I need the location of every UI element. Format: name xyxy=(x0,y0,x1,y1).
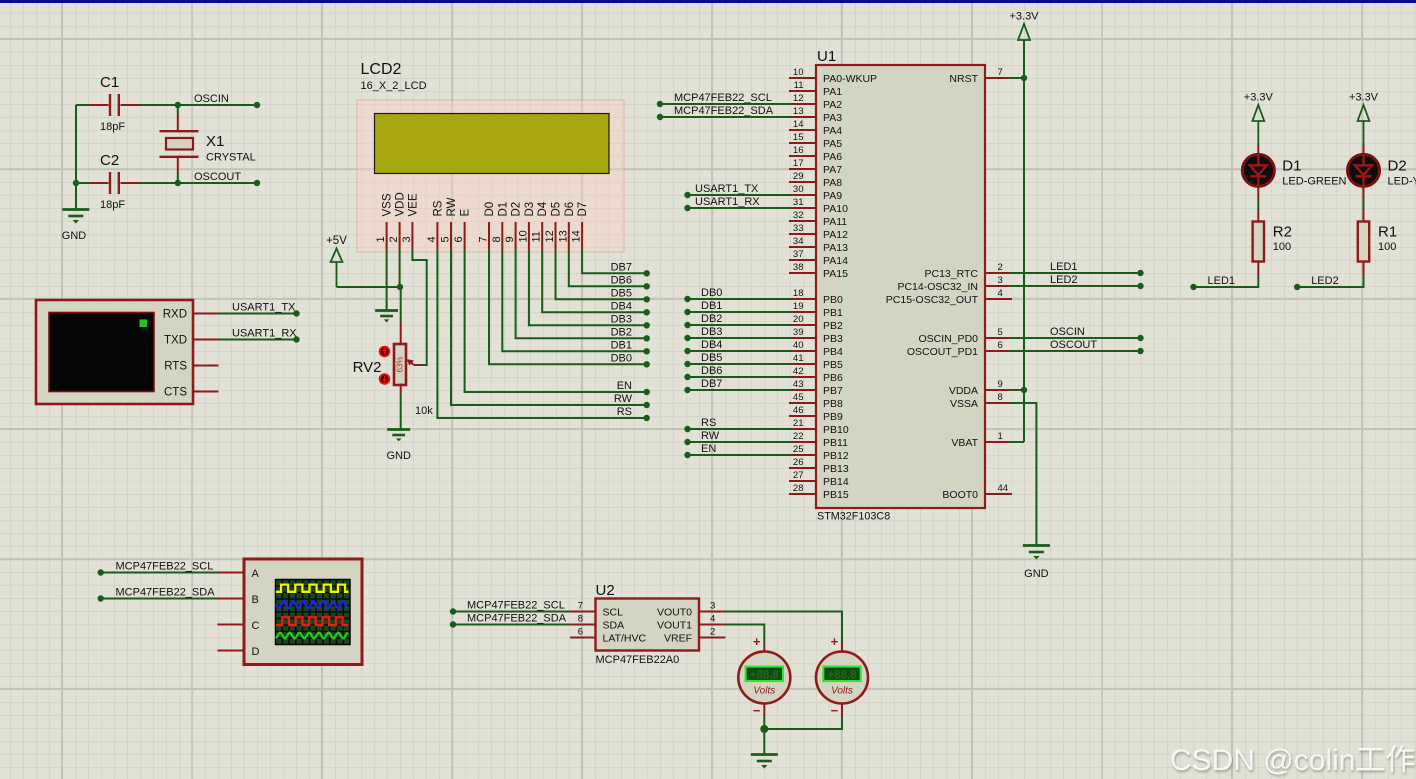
svg-text:DB0: DB0 xyxy=(611,352,632,364)
node VDD junction xyxy=(397,284,403,290)
U2 pin 4 VOUT1 xyxy=(699,624,726,626)
svg-text:2: 2 xyxy=(710,627,715,638)
ground LCD VSS xyxy=(375,309,398,312)
U1 pin 44 BOOT0 xyxy=(985,493,1012,495)
wire RW to U1 xyxy=(688,441,792,443)
svg-text:7: 7 xyxy=(578,601,583,612)
svg-text:9: 9 xyxy=(504,236,516,242)
U1 pin 3 PC14-OSC32_IN xyxy=(985,285,1012,287)
svg-text:31: 31 xyxy=(793,197,804,208)
svg-text:VBAT: VBAT xyxy=(951,437,978,449)
svg-text:15: 15 xyxy=(793,132,804,143)
svg-text:7: 7 xyxy=(478,236,490,242)
wire DB0 to U1 PB0 xyxy=(688,298,792,300)
svg-text:PB13: PB13 xyxy=(823,463,849,475)
wire U2 VOUT1 to voltmeter 1 xyxy=(726,625,765,645)
svg-text:6: 6 xyxy=(453,236,465,242)
U1 pin 27 PB14 xyxy=(789,480,816,482)
svg-text:DB2: DB2 xyxy=(611,326,632,338)
wire LCD VSS to ground xyxy=(386,250,388,311)
svg-text:BOOT0: BOOT0 xyxy=(942,489,978,501)
U1 pin 20 PB2 xyxy=(789,324,816,326)
svg-text:18pF: 18pF xyxy=(100,199,125,211)
svg-text:RTS: RTS xyxy=(164,361,187,373)
power +3.3V rail for U1 xyxy=(1018,24,1030,40)
wire OSCOUT from PD1 xyxy=(1010,350,1141,352)
U1 pin 14 PA4 xyxy=(789,129,816,131)
svg-text:+: + xyxy=(753,634,761,649)
svg-text:OSCIN_PD0: OSCIN_PD0 xyxy=(918,333,978,345)
U1 pin 4 PC15-OSC32_OUT xyxy=(985,298,1012,300)
wire voltmeter 2 to junction xyxy=(764,716,842,729)
svg-text:43: 43 xyxy=(793,379,804,390)
svg-text:42: 42 xyxy=(793,366,804,377)
voltmeter xyxy=(763,644,765,652)
svg-text:−: − xyxy=(831,703,839,718)
svg-text:DB3: DB3 xyxy=(611,313,632,325)
svg-text:14: 14 xyxy=(793,119,804,130)
svg-text:6: 6 xyxy=(578,627,583,638)
U1 pin 38 PA15 xyxy=(789,272,816,274)
svg-text:46: 46 xyxy=(793,405,804,416)
wire VBAT to +3.3V xyxy=(1010,441,1024,443)
svg-text:63%: 63% xyxy=(396,356,405,372)
U1 pin 37 PA14 xyxy=(789,259,816,261)
svg-text:16_X_2_LCD: 16_X_2_LCD xyxy=(361,80,427,92)
svg-text:22: 22 xyxy=(793,431,804,442)
U1 pin 40 PB4 xyxy=(789,350,816,352)
svg-text:RXD: RXD xyxy=(163,309,187,321)
svg-text:DB1: DB1 xyxy=(701,300,722,312)
wire OSCOUT xyxy=(140,182,257,184)
terminal screen xyxy=(49,313,154,392)
power +5V xyxy=(331,249,343,263)
U2 pin 7 SCL xyxy=(570,611,596,613)
wire USART1_RX to U1 PA10 xyxy=(688,207,792,209)
svg-text:PB0: PB0 xyxy=(823,294,843,306)
ground RV2 xyxy=(387,428,410,431)
wire MCP47FEB22_SDA to scope B xyxy=(101,598,218,600)
wire LED1 to R2 xyxy=(1194,275,1259,287)
svg-text:C1: C1 xyxy=(100,74,119,91)
svg-text:6: 6 xyxy=(998,340,1003,351)
svg-text:PB11: PB11 xyxy=(823,437,848,449)
svg-text:RW: RW xyxy=(614,393,633,405)
svg-text:DB6: DB6 xyxy=(611,274,632,286)
wire DB5 to U1 PB5 xyxy=(688,363,792,365)
svg-text:DB2: DB2 xyxy=(701,313,722,325)
svg-text:C2: C2 xyxy=(100,152,119,169)
svg-text:30: 30 xyxy=(793,184,804,195)
svg-text:LED-YELLOW: LED-YELLOW xyxy=(1388,176,1416,188)
U1 pin 18 PB0 xyxy=(789,298,816,300)
node OSCOUT end xyxy=(254,180,260,186)
wire LCD DB2 xyxy=(516,250,647,339)
svg-text:11: 11 xyxy=(531,231,543,242)
svg-text:10: 10 xyxy=(517,230,529,242)
wire MCP47FEB22_SDA to U1 PA3 xyxy=(660,116,791,118)
svg-text:A: A xyxy=(252,568,260,580)
node voltmeter junction xyxy=(760,725,768,733)
U1 pin 43 PB7 xyxy=(789,389,816,391)
svg-text:MCP47FEB22_SDA: MCP47FEB22_SDA xyxy=(467,613,567,625)
svg-text:LED1: LED1 xyxy=(1050,261,1078,273)
svg-text:PB5: PB5 xyxy=(823,359,843,371)
svg-text:17: 17 xyxy=(793,158,804,169)
wire OSCIN from PD0 xyxy=(1010,337,1141,339)
svg-text:DB7: DB7 xyxy=(701,378,722,390)
svg-text:100: 100 xyxy=(1273,241,1291,253)
svg-text:PB1: PB1 xyxy=(823,307,843,319)
svg-text:GND: GND xyxy=(62,230,87,242)
svg-text:100: 100 xyxy=(1378,241,1396,253)
svg-text:DB7: DB7 xyxy=(611,261,632,273)
svg-text:TXD: TXD xyxy=(164,335,187,347)
svg-text:LCD2: LCD2 xyxy=(361,61,402,78)
svg-text:U1: U1 xyxy=(817,48,836,65)
svg-text:USART1_RX: USART1_RX xyxy=(695,196,760,208)
U1 pin 16 PA6 xyxy=(789,155,816,157)
U1 pin 2 PC13_RTC xyxy=(985,272,1012,274)
svg-text:+3.3V: +3.3V xyxy=(1009,11,1039,23)
svg-text:2: 2 xyxy=(998,262,1003,273)
svg-text:+88.8: +88.8 xyxy=(827,670,857,682)
wire LCD EN xyxy=(465,250,647,393)
wire RV2 to ground xyxy=(400,384,402,394)
svg-text:PA15: PA15 xyxy=(823,268,848,280)
wire USART1_RX to terminal TXD xyxy=(219,339,297,341)
svg-text:+88.8: +88.8 xyxy=(750,670,780,682)
svg-text:USART1_TX: USART1_TX xyxy=(232,302,296,314)
wire DB4 to U1 PB4 xyxy=(688,350,792,352)
svg-text:DB5: DB5 xyxy=(701,352,722,364)
wire U2 VOUT0 to voltmeter 2 xyxy=(726,612,843,645)
svg-text:4: 4 xyxy=(998,288,1003,299)
svg-text:SDA: SDA xyxy=(603,620,625,632)
svg-text:PB3: PB3 xyxy=(823,333,843,345)
svg-text:MCP47FEB22A0: MCP47FEB22A0 xyxy=(596,654,680,666)
svg-text:VEE: VEE xyxy=(407,193,419,216)
svg-text:OSCIN: OSCIN xyxy=(1050,326,1085,338)
U1 pin 30 PA9 xyxy=(789,194,816,196)
svg-text:SCL: SCL xyxy=(603,607,624,619)
svg-text:39: 39 xyxy=(793,327,804,338)
svg-text:D4: D4 xyxy=(537,201,549,216)
svg-text:PC15-OSC32_OUT: PC15-OSC32_OUT xyxy=(886,294,979,306)
wire MCP47FEB22_SCL to U1 PA2 xyxy=(660,103,791,105)
svg-text:29: 29 xyxy=(793,171,804,182)
wire LED1 from PC13 xyxy=(1010,272,1141,274)
svg-text:MCP47FEB22_SDA: MCP47FEB22_SDA xyxy=(116,587,216,599)
U1 pin 22 PB11 xyxy=(789,441,816,443)
svg-text:LED2: LED2 xyxy=(1050,274,1078,286)
wire RS to U1 xyxy=(688,428,792,430)
svg-text:PB12: PB12 xyxy=(823,450,849,462)
svg-text:VDD: VDD xyxy=(395,192,407,216)
svg-text:LAT/HVC: LAT/HVC xyxy=(603,633,647,645)
svg-text:+5V: +5V xyxy=(326,235,347,247)
svg-text:MCP47FEB22_SCL: MCP47FEB22_SCL xyxy=(116,561,214,573)
svg-text:1: 1 xyxy=(375,236,387,242)
capacitor C1 xyxy=(89,104,109,106)
svg-text:LED2: LED2 xyxy=(1311,275,1339,287)
svg-text:Volts: Volts xyxy=(753,686,775,697)
svg-text:45: 45 xyxy=(793,392,804,403)
svg-text:32: 32 xyxy=(793,210,804,221)
svg-text:8: 8 xyxy=(998,392,1003,403)
svg-text:+: + xyxy=(831,634,839,649)
svg-text:1: 1 xyxy=(998,431,1003,442)
svg-text:28: 28 xyxy=(793,483,804,494)
svg-text:LED-GREEN: LED-GREEN xyxy=(1282,176,1346,188)
svg-text:PA14: PA14 xyxy=(823,255,848,267)
wire DB1 to U1 PB1 xyxy=(688,311,792,313)
svg-text:R1: R1 xyxy=(1378,224,1397,241)
oscilloscope trace channel D green xyxy=(276,633,348,639)
svg-text:18pF: 18pF xyxy=(100,121,125,133)
svg-text:LED1: LED1 xyxy=(1208,275,1236,287)
svg-text:PB6: PB6 xyxy=(823,372,843,384)
svg-text:B: B xyxy=(252,594,259,606)
svg-text:NRST: NRST xyxy=(949,73,978,85)
svg-text:14: 14 xyxy=(571,230,583,242)
U1 pin 46 PB9 xyxy=(789,415,816,417)
svg-text:2: 2 xyxy=(388,236,400,242)
svg-text:+3.3V: +3.3V xyxy=(1349,92,1379,104)
svg-text:D2: D2 xyxy=(1388,158,1407,175)
svg-text:GND: GND xyxy=(1024,568,1049,580)
svg-text:PA9: PA9 xyxy=(823,190,842,202)
svg-text:11: 11 xyxy=(794,80,804,91)
node OSCOUT junction xyxy=(175,180,181,186)
wire NRST to +3.3V xyxy=(1010,77,1024,79)
svg-text:PA5: PA5 xyxy=(823,138,842,150)
U1 pin 10 PA0-WKUP xyxy=(789,77,816,79)
svg-text:3: 3 xyxy=(401,236,413,242)
svg-text:OSCOUT: OSCOUT xyxy=(194,171,241,183)
svg-text:20: 20 xyxy=(793,314,804,325)
node OSCIN end xyxy=(254,102,260,108)
wire DB3 to U1 PB3 xyxy=(688,337,792,339)
U1 pin 8 VSSA xyxy=(985,402,1012,404)
LCD screen xyxy=(375,114,610,174)
U1 pin 7 NRST xyxy=(985,77,1012,79)
svg-text:X1: X1 xyxy=(206,133,224,150)
svg-text:R2: R2 xyxy=(1273,224,1292,241)
svg-text:10: 10 xyxy=(793,67,804,78)
svg-text:41: 41 xyxy=(793,353,804,364)
wire LCD DB6 xyxy=(569,250,647,287)
wire DB2 to U1 PB2 xyxy=(688,324,792,326)
svg-text:D0: D0 xyxy=(484,202,496,217)
U1 pin 11 PA1 xyxy=(789,90,816,92)
svg-text:21: 21 xyxy=(793,418,804,429)
svg-text:7: 7 xyxy=(998,67,1003,78)
svg-text:8: 8 xyxy=(578,614,583,625)
wire LCD DB4 xyxy=(542,250,647,313)
svg-text:PA4: PA4 xyxy=(823,125,842,137)
svg-text:13: 13 xyxy=(793,106,804,117)
U1 pin 45 PB8 xyxy=(789,402,816,404)
svg-text:OSCOUT: OSCOUT xyxy=(1050,339,1097,351)
oscilloscope trace channel B blue xyxy=(276,601,348,608)
svg-text:OSCOUT_PD1: OSCOUT_PD1 xyxy=(907,346,978,358)
svg-text:44: 44 xyxy=(998,483,1009,494)
svg-text:RW: RW xyxy=(701,430,720,442)
svg-text:PB8: PB8 xyxy=(823,398,843,410)
svg-text:12: 12 xyxy=(793,93,804,104)
svg-text:26: 26 xyxy=(793,457,804,468)
svg-text:3: 3 xyxy=(998,275,1003,286)
wire VSSA to ground xyxy=(1010,403,1036,545)
U1 pin 1 VBAT xyxy=(985,441,1012,443)
svg-text:D1: D1 xyxy=(1282,158,1301,175)
svg-text:3: 3 xyxy=(710,601,715,612)
svg-text:PB15: PB15 xyxy=(823,489,849,501)
U1 pin 32 PA11 xyxy=(789,220,816,222)
svg-text:13: 13 xyxy=(557,230,569,242)
svg-text:8: 8 xyxy=(491,236,503,242)
wire C1/C2 left vertical xyxy=(75,105,77,209)
svg-text:VSSA: VSSA xyxy=(950,398,978,410)
svg-text:DB4: DB4 xyxy=(611,300,632,312)
svg-text:GND: GND xyxy=(386,450,411,462)
LED D2 LED-YELLOW xyxy=(1363,145,1365,155)
svg-text:PA2: PA2 xyxy=(823,99,842,111)
wire OSCIN xyxy=(140,104,257,106)
U1 pin 33 PA12 xyxy=(789,233,816,235)
wire MCP47FEB22_SCL to U2 xyxy=(453,611,570,613)
U1 pin 28 PB15 xyxy=(789,493,816,495)
svg-text:33: 33 xyxy=(793,223,804,234)
virtual terminal instrument xyxy=(36,300,193,404)
svg-text:DB5: DB5 xyxy=(611,287,632,299)
svg-text:D: D xyxy=(252,646,260,658)
svg-text:STM32F103C8: STM32F103C8 xyxy=(817,511,890,523)
U1 pin 39 PB3 xyxy=(789,337,816,339)
U1 pin 26 PB13 xyxy=(789,467,816,469)
wire USART1_TX to terminal RXD xyxy=(219,313,297,315)
svg-text:DB0: DB0 xyxy=(701,287,722,299)
resistor R2 100 xyxy=(1257,186,1259,199)
svg-text:PA3: PA3 xyxy=(823,112,842,124)
svg-text:PA12: PA12 xyxy=(823,229,848,241)
oscilloscope screen xyxy=(276,580,351,645)
svg-text:D7: D7 xyxy=(577,202,589,217)
svg-text:5: 5 xyxy=(440,236,452,242)
svg-text:PB2: PB2 xyxy=(823,320,843,332)
svg-text:VOUT1: VOUT1 xyxy=(657,620,692,632)
U1 pin 29 PA8 xyxy=(789,181,816,183)
svg-text:D5: D5 xyxy=(551,202,563,217)
ground crystal xyxy=(62,208,89,211)
wire LED2 from PC14 xyxy=(1010,285,1141,287)
svg-text:4: 4 xyxy=(710,614,715,625)
svg-text:MCP47FEB22_SDA: MCP47FEB22_SDA xyxy=(674,105,774,117)
svg-text:−: − xyxy=(753,703,761,718)
oscilloscope trace channel C red xyxy=(276,617,349,625)
svg-text:+3.3V: +3.3V xyxy=(1244,92,1274,104)
U1 pin 31 PA10 xyxy=(789,207,816,209)
svg-text:PA1: PA1 xyxy=(823,86,842,98)
svg-text:5: 5 xyxy=(998,327,1003,338)
svg-text:RW: RW xyxy=(446,197,458,216)
svg-text:PB14: PB14 xyxy=(823,476,849,488)
wire LCD DB5 xyxy=(556,250,647,300)
U1 pin 17 PA7 xyxy=(789,168,816,170)
U1 pin 15 PA5 xyxy=(789,142,816,144)
wire LCD RW xyxy=(451,250,647,406)
LED D1 LED-GREEN xyxy=(1257,145,1259,155)
svg-text:RV2: RV2 xyxy=(353,359,382,376)
voltmeter xyxy=(841,644,843,652)
capacitor C2 xyxy=(76,182,89,184)
wire +5V to LCD VDD xyxy=(337,286,401,288)
svg-text:PA11: PA11 xyxy=(823,216,847,228)
svg-text:PB9: PB9 xyxy=(823,411,843,423)
wire DB6 to U1 PB6 xyxy=(688,376,792,378)
svg-text:PB7: PB7 xyxy=(823,385,843,397)
svg-text:Volts: Volts xyxy=(831,686,853,697)
svg-text:25: 25 xyxy=(793,444,804,455)
svg-text:19: 19 xyxy=(793,301,804,312)
svg-text:D6: D6 xyxy=(564,202,576,217)
wire LCD RS xyxy=(437,250,646,419)
svg-text:RS: RS xyxy=(701,417,716,429)
wire USART1_TX to U1 PA9 xyxy=(688,194,792,196)
svg-text:PA10: PA10 xyxy=(823,203,848,215)
svg-text:16: 16 xyxy=(793,145,804,156)
svg-text:40: 40 xyxy=(793,340,804,351)
svg-text:18: 18 xyxy=(793,288,804,299)
svg-text:CRYSTAL: CRYSTAL xyxy=(206,152,256,164)
svg-text:VOUT0: VOUT0 xyxy=(657,607,692,619)
resistor R1 100 xyxy=(1363,186,1365,199)
svg-text:PA7: PA7 xyxy=(823,164,842,176)
wire LED2 to R1 xyxy=(1297,275,1363,287)
svg-text:VSS: VSS xyxy=(382,193,394,216)
svg-text:EN: EN xyxy=(701,443,716,455)
svg-text:PC14-OSC32_IN: PC14-OSC32_IN xyxy=(897,281,978,293)
svg-text:E: E xyxy=(460,209,472,217)
svg-text:37: 37 xyxy=(793,249,804,260)
wire LCD DB7 xyxy=(582,250,647,274)
svg-text:USART1_RX: USART1_RX xyxy=(232,328,297,340)
wire EN to U1 xyxy=(688,454,792,456)
svg-text:DB4: DB4 xyxy=(701,339,722,351)
wire LCD VDD down xyxy=(399,250,401,288)
wire LCD VEE to RV2 wiper xyxy=(412,250,426,366)
U2 pin 3 VOUT0 xyxy=(699,611,726,613)
svg-text:PB10: PB10 xyxy=(823,424,849,436)
svg-text:D2: D2 xyxy=(511,202,523,217)
wire MCP47FEB22_SDA to U2 xyxy=(453,624,570,626)
svg-text:DB6: DB6 xyxy=(701,365,722,377)
U1 pin 42 PB6 xyxy=(789,376,816,378)
U2 pin 2 VREF xyxy=(699,637,726,639)
svg-text:PC13_RTC: PC13_RTC xyxy=(925,268,979,280)
svg-text:MCP47FEB22_SCL: MCP47FEB22_SCL xyxy=(467,600,565,612)
wire LCD DB3 xyxy=(529,250,647,326)
svg-text:PA0-WKUP: PA0-WKUP xyxy=(823,73,877,85)
U1 pin 41 PB5 xyxy=(789,363,816,365)
ground U1 VSSA xyxy=(1023,544,1050,547)
svg-text:DB1: DB1 xyxy=(611,339,632,351)
svg-text:MCP47FEB22_SCL: MCP47FEB22_SCL xyxy=(674,92,772,104)
ground voltmeters xyxy=(751,753,778,756)
svg-text:PA8: PA8 xyxy=(823,177,842,189)
oscilloscope trace channel A yellow xyxy=(276,585,349,592)
